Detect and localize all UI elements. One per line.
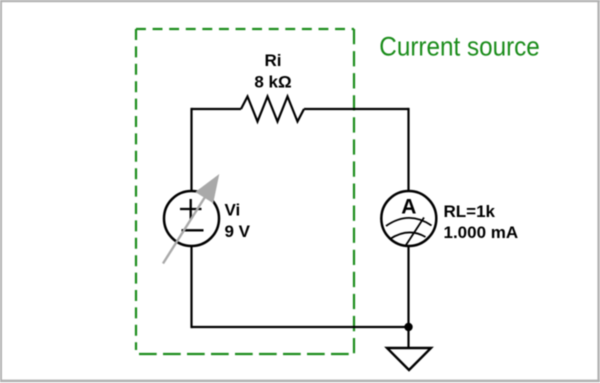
frame border left	[0, 0, 2, 382]
variable-source arrow shaft	[163, 197, 205, 264]
variable-source arrow head	[195, 174, 219, 203]
voltage source Vi circle	[164, 191, 219, 246]
svg-text:A: A	[401, 196, 416, 219]
dashed selection box left edge	[135, 29, 137, 350]
dashed selection box right edge	[353, 29, 355, 354]
svg-text:1.000 mA: 1.000 mA	[444, 223, 519, 242]
junction node dot	[404, 323, 412, 331]
ammeter U1 circle	[381, 191, 436, 246]
svg-text:RL=1k: RL=1k	[444, 202, 496, 221]
wire bottom horizontal	[192, 326, 409, 328]
wire left vertical upper	[190, 108, 192, 191]
wire left vertical lower	[190, 246, 192, 328]
svg-text:8 kΩ: 8 kΩ	[254, 73, 291, 92]
ground symbol	[387, 348, 431, 370]
ammeter scale arc lower	[390, 232, 426, 239]
frame border right	[597, 0, 599, 382]
wire right vertical lower	[407, 246, 409, 328]
svg-text:Current source: Current source	[379, 31, 540, 61]
resistor Ri	[241, 97, 304, 122]
plus sign	[180, 199, 202, 219]
wire to ground	[407, 327, 409, 348]
frame border bottom	[0, 380, 600, 383]
wire top-right horizontal	[304, 108, 409, 110]
minus sign	[182, 229, 204, 231]
svg-text:Ri: Ri	[265, 51, 282, 70]
ammeter scale arc upper	[386, 218, 432, 226]
wire right vertical upper	[407, 108, 409, 192]
dashed selection box top edge	[136, 28, 354, 30]
dashed selection box bottom edge	[139, 353, 354, 355]
svg-text:9 V: 9 V	[225, 222, 251, 241]
frame border top	[0, 0, 600, 2]
ammeter needle	[406, 218, 424, 246]
svg-text:Vi: Vi	[225, 201, 241, 220]
wire top-left horizontal	[192, 108, 242, 110]
